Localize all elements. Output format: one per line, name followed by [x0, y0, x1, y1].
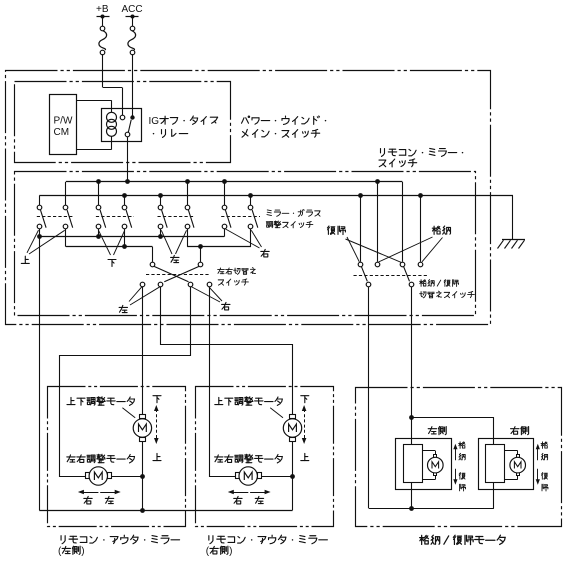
svg-text:): )	[81, 546, 84, 557]
svg-text:P/W: P/W	[54, 116, 73, 127]
svg-text:): )	[229, 546, 232, 557]
svg-text:IG: IG	[149, 116, 160, 127]
svg-text:ACC: ACC	[122, 4, 143, 15]
svg-text:+B: +B	[96, 4, 109, 15]
svg-text:CM: CM	[54, 127, 70, 138]
